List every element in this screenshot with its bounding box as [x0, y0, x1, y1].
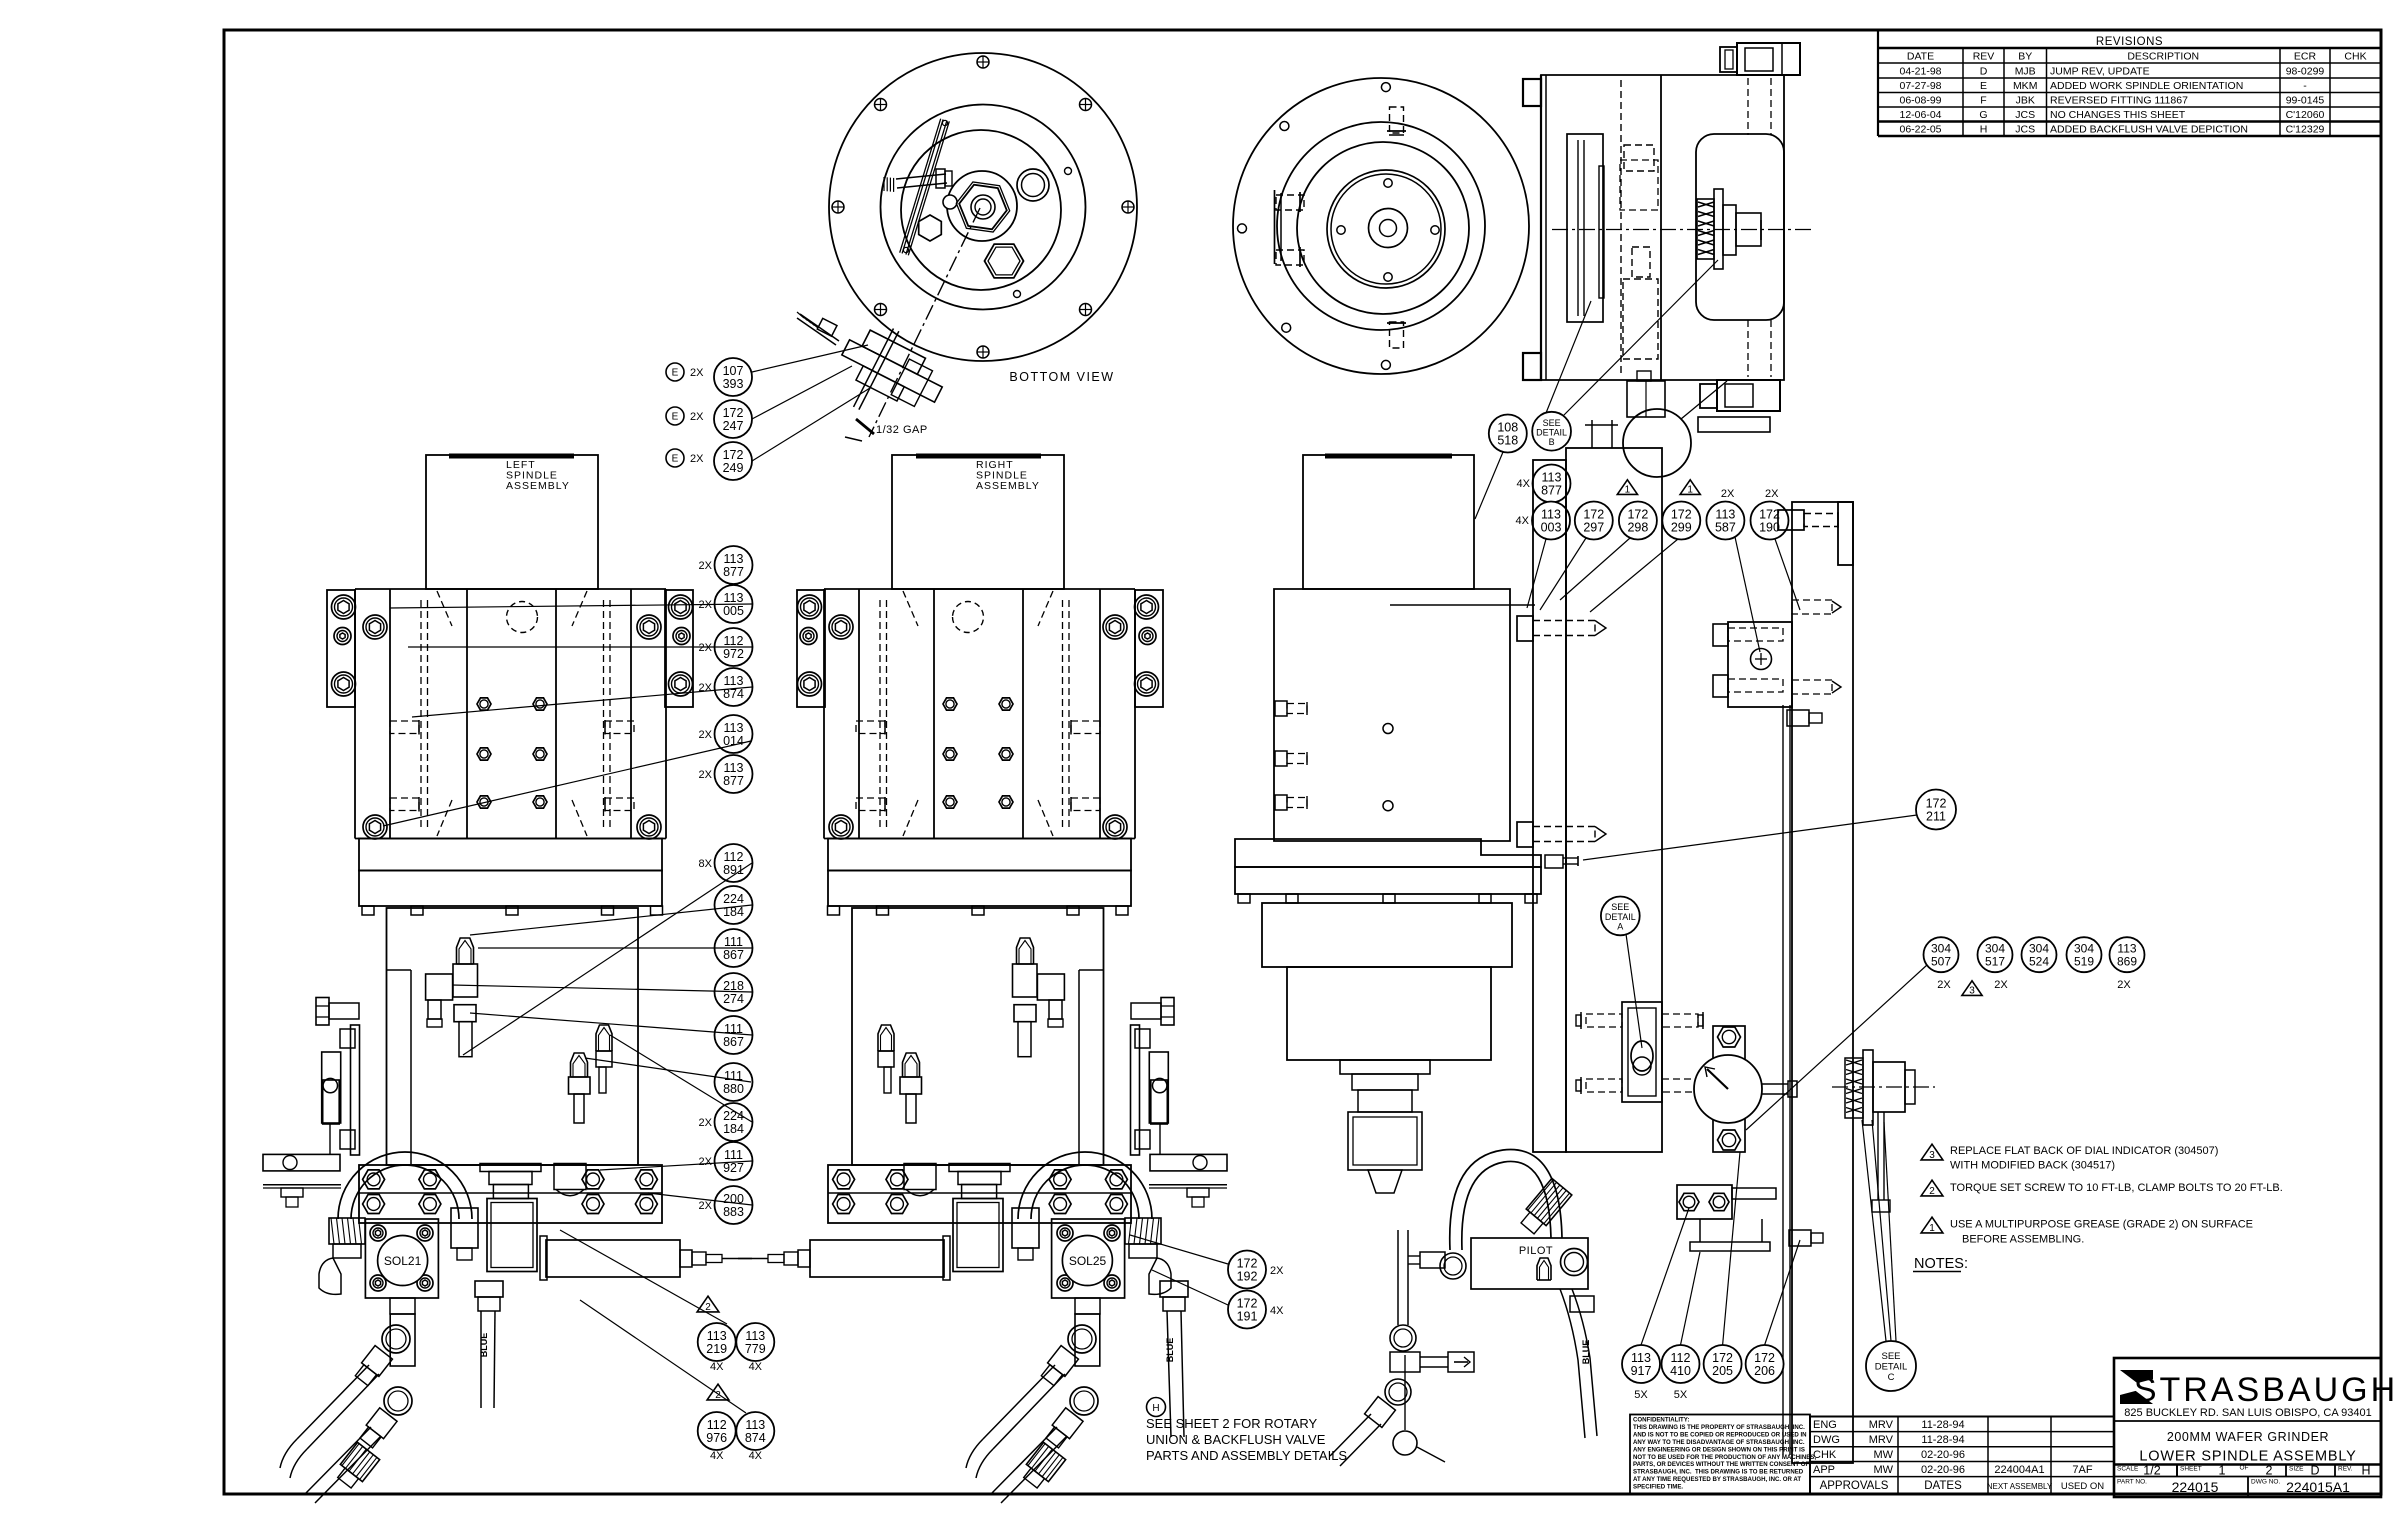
svg-text:NOT TO BE USED FOR THE PRODUCT: NOT TO BE USED FOR THE PRODUCTION OF ANY… [1633, 1454, 1816, 1461]
svg-text:JBK: JBK [2016, 95, 2035, 107]
svg-text:877: 877 [723, 565, 744, 579]
svg-text:113: 113 [1541, 507, 1561, 521]
svg-text:274: 274 [723, 992, 744, 1006]
balloon 111/867 center column [715, 929, 753, 967]
svg-text:C'12060: C'12060 [2286, 109, 2325, 121]
balloon row 304/xxx [1937, 979, 2131, 997]
side view main outline [1541, 75, 1784, 380]
notes heading [1913, 1256, 1968, 1272]
svg-text:2X: 2X [1765, 488, 1779, 500]
see detail B circle [1532, 260, 1718, 451]
svg-text:DESCRIPTION: DESCRIPTION [2127, 51, 2199, 63]
balloon 111/927 center column [699, 1142, 753, 1180]
svg-text:ADDED WORK SPINDLE ORIENTATION: ADDED WORK SPINDLE ORIENTATION [2050, 80, 2243, 92]
right spindle assembly label [976, 459, 1040, 492]
pilot valve block [1471, 1238, 1588, 1289]
svg-text:190: 190 [1759, 520, 1780, 534]
balloon 304/519 [2067, 937, 2102, 972]
confidentiality note block [1630, 1415, 1816, 1495]
balloon 111/867 center column [715, 1016, 753, 1054]
clamp block [1713, 622, 1792, 707]
svg-text:REVERSED FITTING 111867: REVERSED FITTING 111867 [2050, 95, 2188, 107]
svg-text:4X: 4X [1517, 478, 1531, 490]
svg-text:H: H [1980, 124, 1988, 136]
svg-text:2X: 2X [690, 453, 704, 465]
svg-text:113: 113 [745, 1418, 765, 1432]
side view hidden detail boxes [1620, 145, 1658, 359]
front view studs [1276, 107, 1406, 348]
note triangle 2 [1921, 1180, 1943, 1197]
svg-text:867: 867 [723, 948, 744, 962]
svg-text:172: 172 [1754, 1351, 1775, 1365]
svg-text:WITH MODIFIED BACK (304517): WITH MODIFIED BACK (304517) [1950, 1160, 2115, 1172]
svg-text:4X: 4X [749, 1450, 763, 1462]
svg-text:224: 224 [723, 892, 744, 906]
svg-text:869: 869 [2117, 955, 2137, 969]
svg-text:518: 518 [1497, 433, 1518, 447]
svg-text:2X: 2X [699, 769, 713, 781]
svg-text:519: 519 [2074, 955, 2094, 969]
pilot curved hose [1450, 1150, 1572, 1250]
note 1 text [1950, 1219, 2253, 1246]
svg-text:113: 113 [724, 721, 744, 735]
note2 triangle upper [697, 1296, 719, 1313]
svg-text:ASSEMBLY: ASSEMBLY [976, 480, 1040, 492]
svg-text:112: 112 [707, 1418, 727, 1432]
svg-text:TORQUE SET SCREW TO 10 FT-LB,: TORQUE SET SCREW TO 10 FT-LB, CLAMP BOLT… [1950, 1182, 2283, 1194]
tall column B [1566, 420, 1662, 1152]
svg-text:SHEET: SHEET [2180, 1466, 2202, 1473]
bottom view outer flange circle [829, 53, 1137, 361]
svg-text:SEE: SEE [1881, 1351, 1900, 1362]
svg-text:E: E [672, 368, 679, 379]
svg-text:99-0145: 99-0145 [2286, 95, 2325, 107]
balloon 172/298 [1560, 502, 1657, 601]
right hose cluster [966, 1325, 1098, 1503]
svg-text:297: 297 [1583, 520, 1604, 534]
svg-text:8X: 8X [699, 858, 713, 870]
svg-text:172: 172 [723, 448, 744, 462]
balloon 304/507 [1924, 937, 1959, 972]
grease fitting 172/211 target [1545, 855, 1578, 868]
svg-text:4X: 4X [749, 1361, 763, 1373]
balloon 2X 113/587 [1706, 488, 1760, 652]
svg-text:SOL21: SOL21 [384, 1254, 422, 1268]
balloon 113/779 [736, 1323, 774, 1373]
E callout leader lines [752, 345, 870, 461]
svg-text:PARTS AND ASSEMBLY DETAILS: PARTS AND ASSEMBLY DETAILS [1146, 1448, 1347, 1463]
svg-text:ECR: ECR [2294, 51, 2317, 63]
svg-text:2X: 2X [699, 682, 713, 694]
svg-text:1: 1 [1687, 485, 1693, 496]
svg-text:877: 877 [723, 774, 744, 788]
svg-text:BY: BY [2018, 51, 2032, 63]
front view retainer screws [1337, 179, 1439, 281]
svg-text:507: 507 [1931, 955, 1951, 969]
svg-text:3: 3 [1969, 986, 1975, 997]
spring detail C target [1832, 1050, 1935, 1212]
balloon 172/191 [1152, 1270, 1284, 1329]
svg-text:REVISIONS: REVISIONS [2096, 36, 2163, 48]
side view bottom bolt assembly [1698, 380, 1780, 432]
svg-text:877: 877 [1541, 483, 1562, 497]
svg-text:CHK: CHK [2344, 51, 2366, 63]
side view internal verticals [1621, 75, 1771, 380]
svg-text:MRV: MRV [1869, 1419, 1894, 1431]
front view hub [1369, 209, 1408, 248]
balloon 113/005 center column [699, 585, 753, 623]
svg-text:172: 172 [1583, 507, 1604, 521]
pilot outlet hoses [1560, 1289, 1597, 1438]
svg-text:DATES: DATES [1924, 1480, 1962, 1492]
dial stem [1762, 1081, 1797, 1097]
svg-text:2X: 2X [1270, 1265, 1284, 1277]
svg-text:2X: 2X [699, 1156, 713, 1168]
third view left hidden bolts [1275, 701, 1307, 810]
svg-text:224004A1: 224004A1 [1994, 1464, 2044, 1476]
balloon 113/874 lower [736, 1412, 774, 1462]
svg-text:98-0299: 98-0299 [2286, 66, 2325, 78]
svg-text:2X: 2X [690, 411, 704, 423]
third view main box [1274, 589, 1535, 841]
svg-text:005: 005 [723, 604, 744, 618]
svg-text:172: 172 [1671, 507, 1692, 521]
5X labels [1634, 1389, 1688, 1401]
left hose cluster [280, 1325, 412, 1503]
svg-text:ENG: ENG [1813, 1419, 1837, 1431]
svg-text:587: 587 [1715, 520, 1736, 534]
svg-text:976: 976 [706, 1431, 727, 1445]
svg-text:249: 249 [723, 461, 744, 475]
third view base plates [1235, 839, 1541, 903]
svg-text:304: 304 [1931, 942, 1951, 956]
svg-text:STRASBAUGH, INC. THIS DRAWING: STRASBAUGH, INC. THIS DRAWING IS TO BE R… [1633, 1469, 1804, 1476]
svg-text:4X: 4X [1516, 515, 1530, 527]
svg-text:111: 111 [724, 1148, 743, 1162]
svg-text:779: 779 [745, 1342, 766, 1356]
svg-text:MW: MW [1873, 1449, 1893, 1461]
svg-text:112: 112 [724, 850, 744, 864]
svg-text:218: 218 [723, 979, 744, 993]
svg-text:USED ON: USED ON [2061, 1481, 2104, 1492]
svg-text:5X: 5X [1634, 1389, 1648, 1401]
svg-text:2X: 2X [699, 642, 713, 654]
svg-text:ANY WAY TO THE DISADVANTAGE OF: ANY WAY TO THE DISADVANTAGE OF STRASBAUG… [1633, 1439, 1805, 1446]
svg-text:2X: 2X [699, 1200, 713, 1212]
note1 triangle at 172/298 [1617, 480, 1637, 496]
balloon 224/184 center column [715, 886, 753, 924]
svg-text:1: 1 [1625, 485, 1631, 496]
svg-text:E: E [672, 412, 679, 423]
svg-text:4X: 4X [1270, 1305, 1284, 1317]
svg-text:MJB: MJB [2015, 66, 2036, 78]
svg-text:2X: 2X [1721, 488, 1735, 500]
balloon 113/874 center column [699, 668, 753, 706]
bottom view hub circle with notch [943, 171, 1017, 241]
svg-text:410: 410 [1670, 1364, 1691, 1378]
third view pedestal [1262, 903, 1512, 1060]
balloon 304/524 [2022, 937, 2057, 972]
svg-text:192: 192 [1237, 1269, 1258, 1283]
svg-text:SPECIFIED TIME.: SPECIFIED TIME. [1633, 1484, 1683, 1491]
svg-text:06-08-99: 06-08-99 [1899, 95, 1941, 107]
svg-text:172: 172 [1237, 1296, 1258, 1310]
svg-text:219: 219 [706, 1342, 727, 1356]
flag H circle [1147, 1398, 1166, 1417]
dial indicator [1694, 1055, 1762, 1123]
svg-text:2X: 2X [699, 560, 713, 572]
svg-text:2X: 2X [699, 729, 713, 741]
svg-text:2X: 2X [690, 367, 704, 379]
svg-text:MW: MW [1873, 1464, 1893, 1476]
note1 triangle at 172/299 [1680, 480, 1700, 496]
left spindle assembly label [506, 459, 570, 492]
svg-text:ADDED BACKFLUSH VALVE DEPICTIO: ADDED BACKFLUSH VALVE DEPICTION [2050, 124, 2248, 136]
svg-text:247: 247 [723, 419, 744, 433]
svg-text:E: E [1980, 80, 1987, 92]
third view under-stack [1340, 1060, 1430, 1193]
svg-text:REPLACE FLAT BACK OF DIAL INDI: REPLACE FLAT BACK OF DIAL INDICATOR (304… [1950, 1145, 2218, 1157]
svg-text:PARTS, OR DEVICES WITHOUT THE: PARTS, OR DEVICES WITHOUT THE WRITTEN CO… [1633, 1461, 1810, 1468]
svg-text:SOL25: SOL25 [1069, 1254, 1107, 1268]
svg-text:206: 206 [1754, 1364, 1775, 1378]
svg-text:LOWER SPINDLE ASSEMBLY: LOWER SPINDLE ASSEMBLY [2139, 1449, 2356, 1465]
svg-text:524: 524 [2029, 955, 2049, 969]
svg-text:172: 172 [1926, 796, 1947, 810]
svg-text:04-21-98: 04-21-98 [1899, 66, 1941, 78]
svg-text:2: 2 [705, 1302, 711, 1313]
svg-text:184: 184 [723, 1122, 744, 1136]
balloon 218/274 center column [715, 973, 753, 1011]
svg-text:MRV: MRV [1869, 1434, 1894, 1446]
svg-text:107: 107 [723, 364, 744, 378]
svg-text:12-06-04: 12-06-04 [1899, 109, 1941, 121]
svg-text:2: 2 [2266, 1464, 2273, 1478]
third view lower hoses [1330, 1230, 1474, 1466]
svg-text:H: H [2361, 1464, 2370, 1478]
svg-text:SIZE: SIZE [2289, 1466, 2304, 1473]
svg-text:2X: 2X [699, 1117, 713, 1129]
balloon 113/877 center column [699, 546, 753, 584]
hex plug small [919, 215, 942, 241]
side view bearing housing [1696, 134, 1784, 320]
center column leader lines [383, 604, 752, 1205]
approvals table [1810, 1417, 2114, 1495]
svg-text:BLUE: BLUE [479, 1333, 489, 1358]
svg-text:C: C [1888, 1372, 1895, 1383]
right spindle assembly [738, 455, 1227, 1366]
svg-text:11-28-94: 11-28-94 [1921, 1434, 1964, 1446]
balloon 108/518 [1475, 415, 1527, 520]
svg-text:972: 972 [723, 647, 744, 661]
svg-text:06-22-05: 06-22-05 [1899, 124, 1941, 136]
note triangle 1 [1921, 1217, 1943, 1234]
svg-text:113: 113 [1631, 1351, 1651, 1365]
drawing title [2139, 1430, 2356, 1465]
svg-text:867: 867 [723, 1035, 744, 1049]
small port holes [1014, 168, 1072, 298]
svg-text:4X: 4X [710, 1361, 724, 1373]
svg-text:SCALE: SCALE [2117, 1466, 2139, 1473]
svg-text:211: 211 [1926, 809, 1946, 823]
balancer circle [1623, 381, 1727, 477]
Strasbaugh logo [2120, 1370, 2398, 1409]
svg-text:CONFIDENTIALITY:: CONFIDENTIALITY: [1633, 1417, 1689, 1424]
svg-text:DETAIL: DETAIL [1536, 428, 1567, 438]
left spindle assembly [263, 455, 752, 1366]
see detail C circle [1862, 1120, 1916, 1391]
svg-text:1: 1 [1929, 1223, 1935, 1234]
front view ring 3 [1297, 142, 1469, 314]
third view top box [1303, 455, 1474, 589]
svg-text:108: 108 [1497, 420, 1518, 434]
svg-text:DWG: DWG [1813, 1434, 1840, 1446]
svg-text:883: 883 [723, 1205, 744, 1219]
svg-text:USE A MULTIPURPOSE GREASE (GRA: USE A MULTIPURPOSE GREASE (GRADE 2) ON S… [1950, 1219, 2253, 1231]
balloon 2X 172/190 [1751, 488, 1801, 610]
svg-text:113: 113 [724, 674, 744, 688]
svg-text:DETAIL: DETAIL [1875, 1362, 1908, 1373]
svg-text:113: 113 [2117, 942, 2136, 956]
side view left tabs [1523, 79, 1541, 380]
revisions table [1878, 30, 2381, 136]
balloon 4X 113/877 [1517, 465, 1571, 503]
svg-text:113: 113 [724, 591, 744, 605]
tall plate A [1533, 460, 1566, 1152]
front view flange holes [1238, 83, 1391, 370]
see detail A bracket [1576, 1002, 1703, 1102]
svg-text:304: 304 [2029, 942, 2049, 956]
svg-text:NO CHANGES THIS SHEET: NO CHANGES THIS SHEET [2050, 109, 2186, 121]
svg-text:02-20-96: 02-20-96 [1921, 1449, 1965, 1461]
svg-text:2X: 2X [1937, 979, 1951, 991]
part number row [2117, 1477, 2350, 1498]
svg-text:874: 874 [745, 1431, 766, 1445]
svg-text:299: 299 [1671, 520, 1692, 534]
svg-text:JCS: JCS [2015, 109, 2035, 121]
svg-text:172: 172 [723, 406, 744, 420]
svg-text:REV: REV [1973, 51, 1995, 63]
front view ring 2 [1277, 122, 1485, 330]
svg-text:THIS DRAWING IS THE PROPERTY O: THIS DRAWING IS THE PROPERTY OF STRASBAU… [1633, 1424, 1805, 1431]
svg-text:304: 304 [2074, 942, 2094, 956]
svg-text:393: 393 [723, 377, 744, 391]
bottom view middle circle [881, 105, 1086, 310]
third view right bolts [1517, 616, 1606, 847]
svg-text:MKM: MKM [2013, 80, 2038, 92]
side view top bolt assembly [1720, 43, 1800, 75]
svg-text:AND IS NOT TO BE COPIED OR REP: AND IS NOT TO BE COPIED OR REPRODUCED OR… [1633, 1431, 1807, 1438]
svg-text:UNION & BACKFLUSH VALVE: UNION & BACKFLUSH VALVE [1146, 1432, 1326, 1447]
svg-text:517: 517 [1985, 955, 2005, 969]
svg-text:DWG NO.: DWG NO. [2251, 1479, 2280, 1486]
svg-text:G: G [1979, 109, 1987, 121]
svg-text:APPROVALS: APPROVALS [1820, 1480, 1889, 1492]
cross pin rod [884, 169, 952, 192]
front view bearing retainer circles [1327, 170, 1445, 288]
third view small holes [1383, 724, 1393, 811]
balloon 113/917 dial area [1622, 1345, 1660, 1383]
balloon 112/410 dial area [1662, 1345, 1700, 1383]
side view spring section [1697, 189, 1761, 269]
balloon 172/299 [1590, 502, 1700, 613]
svg-text:1/32 GAP: 1/32 GAP [876, 424, 928, 436]
side view disc stack [1567, 134, 1604, 322]
detached clamp fitting [797, 312, 956, 441]
svg-text:113: 113 [745, 1329, 765, 1343]
flag E callout 172/249 [666, 442, 752, 480]
svg-text:003: 003 [1541, 520, 1562, 534]
svg-text:7AF: 7AF [2072, 1464, 2092, 1476]
balloon 111/880 center column [715, 1063, 753, 1101]
svg-text:F: F [1980, 95, 1986, 107]
svg-text:STRASBAUGH: STRASBAUGH [2134, 1371, 2398, 1409]
balloon 200/883 center column [699, 1186, 753, 1224]
side view center line [1552, 229, 1812, 231]
svg-text:ASSEMBLY: ASSEMBLY [506, 480, 570, 492]
balloon 172/206 dial area [1746, 1345, 1784, 1383]
svg-text:APP: APP [1813, 1464, 1835, 1476]
plate C side bolts [1787, 600, 1841, 726]
svg-text:PILOT: PILOT [1519, 1245, 1553, 1257]
svg-text:2X: 2X [1994, 979, 2008, 991]
wiper bar [900, 119, 950, 256]
svg-text:07-27-98: 07-27-98 [1899, 80, 1941, 92]
svg-text:172: 172 [1759, 507, 1780, 521]
dial back plate [1713, 1026, 1745, 1152]
svg-text:917: 917 [1631, 1364, 1652, 1378]
spindle center line [869, 208, 980, 437]
svg-text:NEXT ASSEMBLY: NEXT ASSEMBLY [1987, 1482, 2053, 1491]
svg-text:2: 2 [1929, 1186, 1935, 1197]
svg-text:BOTTOM VIEW: BOTTOM VIEW [1009, 370, 1114, 384]
svg-text:113: 113 [724, 552, 744, 566]
side view flange face [1541, 75, 1546, 380]
note triangle 3 [1921, 1144, 1943, 1161]
balloon 224/184 center column [699, 1103, 753, 1141]
balloon 112/976 [698, 1412, 736, 1462]
note 3 text [1950, 1145, 2218, 1172]
svg-text:BEFORE ASSEMBLING.: BEFORE ASSEMBLING. [1962, 1234, 2084, 1246]
dial balloon leaders [1641, 1152, 1800, 1345]
svg-text:113: 113 [707, 1329, 727, 1343]
svg-text:E: E [672, 454, 679, 465]
svg-text:113: 113 [724, 761, 744, 775]
balloon 4X 113/003 [1516, 502, 1570, 609]
right plate C [1783, 502, 1853, 1463]
svg-text:1/2: 1/2 [2143, 1464, 2160, 1478]
svg-text:224015A1: 224015A1 [2286, 1479, 2350, 1495]
svg-text:02-20-96: 02-20-96 [1921, 1464, 1965, 1476]
svg-text:172: 172 [1237, 1256, 1258, 1270]
svg-text:172: 172 [1627, 507, 1648, 521]
svg-text:DETAIL: DETAIL [1605, 912, 1636, 922]
balloon 304/507 leader [1746, 965, 1927, 1130]
bottom view inner circle [901, 130, 1061, 290]
svg-text:SEE SHEET 2 FOR ROTARY: SEE SHEET 2 FOR ROTARY [1146, 1416, 1318, 1431]
svg-text:C'12329: C'12329 [2286, 124, 2325, 136]
pilot left fittings [1408, 1252, 1466, 1279]
left blue hose [475, 1281, 503, 1408]
balloon 172/192 [1130, 1235, 1284, 1289]
see detail A circle [1601, 897, 1642, 1049]
svg-text:B: B [1549, 437, 1555, 447]
balloon 113/877 center column [699, 755, 753, 793]
svg-text:5X: 5X [1674, 1389, 1688, 1401]
svg-text:880: 880 [723, 1082, 744, 1096]
svg-text:1: 1 [2219, 1464, 2226, 1478]
flange mounting screws [832, 56, 1134, 358]
